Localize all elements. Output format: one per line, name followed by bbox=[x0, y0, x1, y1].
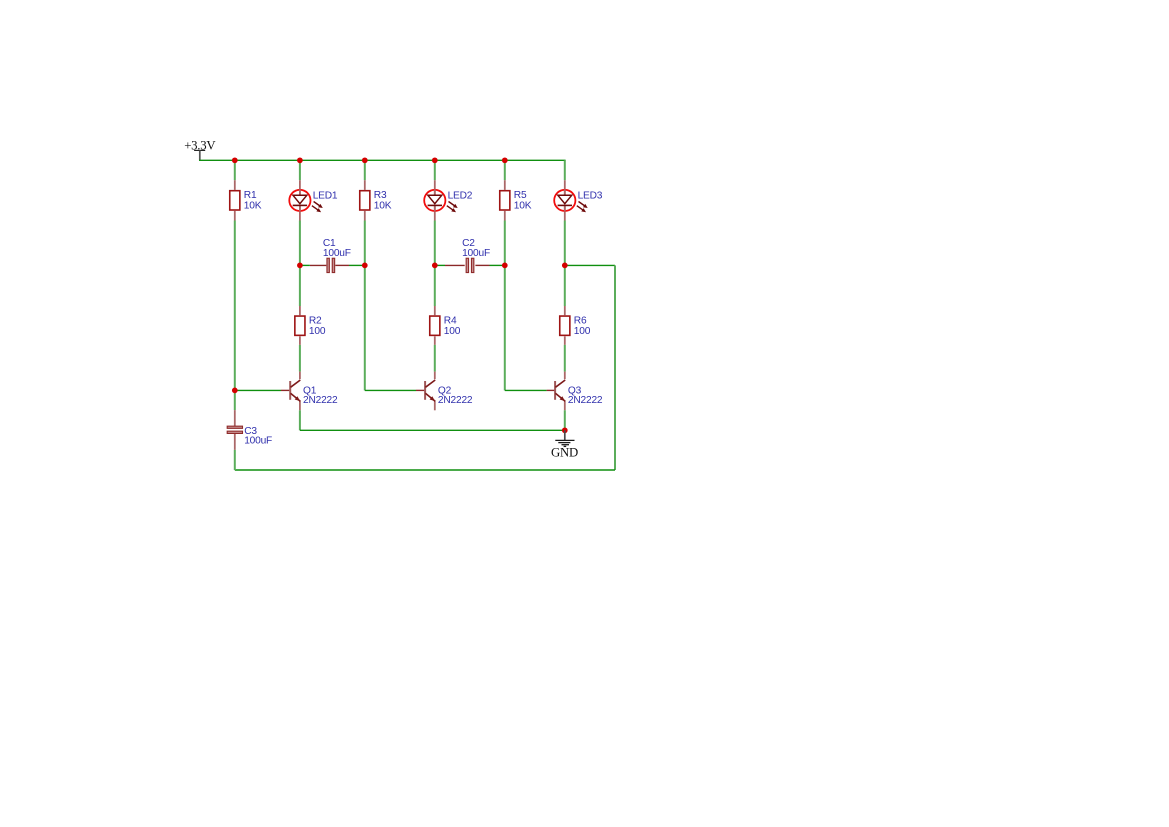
pin: LED2 bottom pin (pin 2) bbox=[434, 206, 436, 221]
svg-text:R5: R5 bbox=[514, 190, 527, 201]
transistor Q3 (2N2222) NPN bbox=[555, 380, 603, 406]
wire: C3 bottom to bottom rail bbox=[234, 450, 236, 470]
pin: LED1 top pin (pin 1) bbox=[299, 180, 301, 195]
wire: component bottom down to mid node x=504.8 bbox=[504, 221, 506, 266]
pin: Q1 base pin bbox=[281, 389, 289, 391]
resistor R2 bbox=[295, 316, 326, 338]
svg-text:100uF: 100uF bbox=[462, 248, 490, 259]
svg-text:10K: 10K bbox=[244, 201, 262, 212]
svg-text:R1: R1 bbox=[244, 190, 257, 201]
power flag +3.3V bbox=[184, 138, 216, 160]
capacitor C2 (100uF) bbox=[462, 238, 490, 273]
pin: LED1 bottom pin (pin 2) bbox=[299, 206, 301, 221]
pin: Q1 emitter pin bbox=[299, 401, 301, 410]
pin: C3 top pin bbox=[234, 410, 236, 426]
svg-text:LED3: LED3 bbox=[578, 190, 603, 201]
pin: Q2 emitter pin bbox=[434, 401, 436, 410]
pin: R3 bottom pin (pin 2) bbox=[364, 211, 366, 221]
pin: C1 right pin bbox=[335, 264, 349, 266]
wire: mid node down to R6 bbox=[564, 265, 566, 306]
wire: top rail corner down to LED3 bbox=[564, 160, 566, 180]
pin: R5 bottom pin (pin 2) bbox=[504, 211, 506, 221]
junction node LED1/C1/R2 bbox=[297, 263, 303, 269]
pin: R6 bottom pin (pin 2) bbox=[564, 336, 566, 345]
wire: Q2 base wire bbox=[365, 389, 416, 391]
wire: mid node down to R4 bbox=[434, 265, 436, 306]
pin: Q3 collector pin bbox=[564, 372, 566, 380]
svg-text:LED1: LED1 bbox=[313, 190, 338, 201]
wire: C2 right to node R5 bbox=[490, 264, 505, 266]
wire: node R3 down to Q2 base level bbox=[364, 265, 366, 390]
svg-text:R3: R3 bbox=[374, 190, 387, 201]
wire: rail drop to LED1 bbox=[299, 160, 301, 180]
svg-text:100: 100 bbox=[444, 326, 461, 337]
pin: R2 top pin (pin 1) bbox=[299, 306, 301, 315]
junction node C2/R5 bbox=[502, 263, 508, 269]
transistor Q1 (2N2222) NPN bbox=[290, 380, 338, 406]
resistor R6 bbox=[560, 316, 591, 338]
pin: C2 right pin bbox=[475, 264, 489, 266]
svg-text:100: 100 bbox=[309, 326, 326, 337]
junction node rail/R3 bbox=[362, 157, 368, 163]
svg-text:10K: 10K bbox=[514, 201, 532, 212]
wire: Q3 emitter down to GND node bbox=[564, 410, 566, 430]
pin: R2 bottom pin (pin 2) bbox=[299, 336, 301, 345]
wire: node LED3 right to feedback rail bbox=[565, 264, 615, 266]
junction node rail/R1 bbox=[232, 157, 238, 163]
wire: mid node down to R2 bbox=[299, 265, 301, 306]
LED LED1 bbox=[289, 189, 338, 212]
junction node R1/Q1 base/C3 bbox=[232, 388, 238, 394]
junction node rail/LED1 bbox=[297, 157, 303, 163]
pin: C1 left pin bbox=[310, 264, 326, 266]
wire: rail drop to R3 bbox=[364, 160, 366, 180]
wire: Q3 base wire bbox=[505, 389, 547, 391]
pin: Q3 emitter pin bbox=[564, 401, 566, 410]
svg-text:R4: R4 bbox=[444, 316, 457, 327]
svg-text:10K: 10K bbox=[374, 201, 392, 212]
capacitor C1 (100uF) bbox=[323, 238, 351, 273]
wire: Q1 base wire from R1/C3 node bbox=[235, 389, 281, 391]
svg-text:R2: R2 bbox=[309, 316, 322, 327]
pin: Q2 base pin bbox=[416, 389, 424, 391]
svg-text:LED2: LED2 bbox=[448, 190, 473, 201]
LED LED2 bbox=[424, 189, 473, 212]
svg-text:2N2222: 2N2222 bbox=[303, 395, 338, 406]
pin: Q2 collector pin bbox=[434, 372, 436, 380]
wire: R1 bottom long wire down to Q1 base node bbox=[234, 221, 236, 391]
resistor R4 bbox=[430, 316, 461, 338]
wire: rail drop to R1 bbox=[234, 160, 236, 180]
wire: Q1 emitter down to ground rail bbox=[299, 410, 301, 430]
capacitor C3 (100uF) bbox=[227, 426, 272, 446]
wire: C1 right to node R3 bbox=[349, 264, 365, 266]
wire: node LED2 to C2 left bbox=[435, 264, 445, 266]
svg-text:100: 100 bbox=[574, 326, 591, 337]
pin: R5 top pin (pin 1) bbox=[504, 180, 506, 190]
pin: C3 bottom pin bbox=[234, 433, 236, 450]
resistor R3 bbox=[360, 190, 392, 212]
pin: R3 top pin (pin 1) bbox=[364, 180, 366, 190]
pin: R6 top pin (pin 1) bbox=[564, 306, 566, 315]
wire: rail drop to R5 bbox=[504, 160, 506, 180]
wire: component bottom down to mid node x=299.9 bbox=[299, 221, 301, 266]
junction node emitter/GND bbox=[562, 427, 568, 433]
pin: LED3 bottom pin (pin 2) bbox=[564, 206, 566, 221]
junction node LED2/C2/R4 bbox=[432, 263, 438, 269]
wire: R4 bottom to Q2 collector bbox=[434, 345, 436, 372]
junction node LED3/R6/feedback bbox=[562, 263, 568, 269]
wire: base node down toward C3 bbox=[234, 390, 236, 410]
transistor Q2 (2N2222) NPN bbox=[425, 380, 473, 406]
pin: Q1 collector pin bbox=[299, 372, 301, 380]
pin: R1 bottom pin (pin 2) bbox=[234, 211, 236, 221]
pin: R1 top pin (pin 1) bbox=[234, 180, 236, 190]
svg-text:2N2222: 2N2222 bbox=[568, 395, 603, 406]
wire: ground rail from Q1 to GND node bbox=[300, 429, 565, 431]
wire: component bottom down to mid node x=564.8 bbox=[564, 221, 566, 266]
svg-text:GND: GND bbox=[551, 445, 578, 459]
pin: LED3 top pin (pin 1) bbox=[564, 180, 566, 195]
svg-text:100uF: 100uF bbox=[323, 248, 351, 259]
pin: Q3 base pin bbox=[547, 389, 555, 391]
wire: +3.3V top power rail bbox=[199, 159, 566, 161]
wire: node LED1 to C1 left bbox=[300, 264, 310, 266]
wire: right feedback rail vertical bbox=[614, 265, 616, 470]
pin: LED2 top pin (pin 1) bbox=[434, 180, 436, 195]
ground GND bbox=[551, 430, 578, 459]
junction node rail/LED2 bbox=[432, 157, 438, 163]
wire: component bottom down to mid node x=434.8 bbox=[434, 221, 436, 266]
svg-text:R6: R6 bbox=[574, 316, 587, 327]
svg-text:100uF: 100uF bbox=[244, 435, 272, 446]
LED LED3 bbox=[554, 189, 603, 212]
pin: R4 bottom pin (pin 2) bbox=[434, 336, 436, 345]
wire: bottom feedback rail bbox=[235, 469, 615, 471]
wire: R2 bottom to Q1 collector bbox=[299, 345, 301, 372]
junction node C1/R3 bbox=[362, 263, 368, 269]
wire: rail drop to LED2 bbox=[434, 160, 436, 180]
wire: R6 bottom to Q3 collector bbox=[564, 345, 566, 372]
svg-text:2N2222: 2N2222 bbox=[438, 395, 473, 406]
wire: node R5 down to Q3 base level bbox=[504, 265, 506, 390]
junction node rail/R5 bbox=[502, 157, 508, 163]
resistor R1 bbox=[230, 190, 262, 212]
pin: C2 left pin bbox=[445, 264, 465, 266]
pin: R4 top pin (pin 1) bbox=[434, 306, 436, 315]
wire: component bottom down to mid node x=364.8 bbox=[364, 221, 366, 266]
resistor R5 bbox=[500, 190, 532, 212]
